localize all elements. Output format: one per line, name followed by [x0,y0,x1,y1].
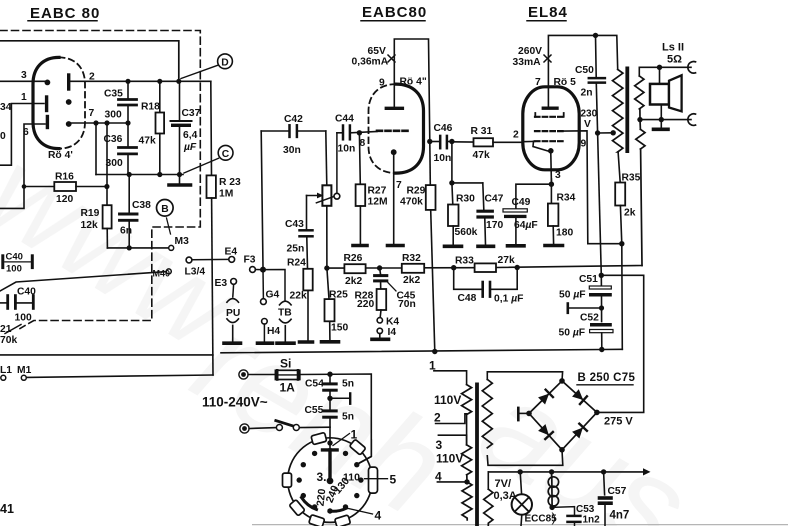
resistor R35 2k [615,173,640,244]
wire B+ solid top line [0,41,179,81]
node D [181,54,232,79]
svg-text:3.: 3. [317,470,327,484]
svg-text:70k: 70k [0,335,17,346]
svg-text:1A: 1A [280,381,296,395]
resistor R32 2k2 [402,253,424,286]
svg-text:5n: 5n [342,412,354,423]
wire screen pin9 down to R35 bottom [564,131,622,244]
svg-text:33mA: 33mA [513,57,542,68]
svg-text:Ls II: Ls II [662,42,684,54]
diode D4 [572,424,587,439]
svg-text:G4: G4 [266,290,280,301]
ground R27 [353,244,367,248]
svg-text:30n: 30n [283,145,301,156]
svg-text:C51: C51 [579,274,598,285]
svg-text:): ) [552,510,556,525]
svg-text:EL84: EL84 [528,4,568,21]
svg-text:170: 170 [486,220,503,231]
wire NFB rail y268 [327,266,642,269]
capacitor C48 0,1µF [454,268,524,305]
wire main bottom bus [221,349,622,353]
transformer T-out primary [613,69,623,151]
svg-text:2: 2 [89,72,95,83]
svg-text:34: 34 [0,102,12,113]
svg-text:TB: TB [278,308,292,319]
capacitor C43 25n [285,196,313,269]
svg-text:C49: C49 [512,197,531,208]
svg-text:C50: C50 [575,65,594,76]
capacitor C46 10n [430,123,455,164]
ground PU [224,341,241,345]
svg-text:R 31: R 31 [471,126,493,137]
capacitor C57 4n7 [600,472,630,526]
ground R30 [445,245,462,249]
svg-text:5n: 5n [342,379,354,390]
svg-text:K4: K4 [386,317,399,328]
svg-text:M40: M40 [153,269,171,279]
capacitor C36 300 [104,123,137,175]
svg-text:Rö 4": Rö 4" [400,77,427,88]
svg-text:µF: µF [183,142,197,153]
svg-text:R25: R25 [329,290,348,301]
ground H4 [258,341,273,345]
svg-text:50 µF: 50 µF [559,328,586,339]
svg-text:120: 120 [56,194,73,205]
capacitor C38 6n [120,175,152,248]
svg-text:C48: C48 [458,293,477,304]
svg-text:Si: Si [280,357,291,371]
svg-text:C35: C35 [104,89,123,100]
selector voltage rotary switch [283,428,397,526]
svg-text:70n: 70n [398,299,416,310]
node I4 terminal [377,328,382,333]
resistor R19 12k [81,120,112,247]
tube U-Rö4' triode EABC80 [21,57,95,161]
svg-text:7: 7 [89,108,95,119]
svg-text:27k: 27k [498,255,515,266]
voltage note 65V 0,36mA [352,46,396,68]
transformer core [625,67,629,154]
capacitor C50 2n [575,35,605,133]
selector rotor [323,448,338,451]
svg-text:C57: C57 [608,486,627,497]
transformer T-mains HV winding [482,379,492,447]
capacitor C53 1n2 [552,504,600,526]
svg-text:7: 7 [535,77,541,88]
ground R34 [545,244,563,248]
svg-text:47k: 47k [473,150,490,161]
capacitor C42 30n [261,114,326,156]
capacitor C35 300 [104,81,137,123]
resistor R16 120 [24,172,110,206]
svg-text:64µF: 64µF [514,220,538,231]
resistor R34 180 [548,170,576,244]
ground R25 [322,340,339,344]
tube U-Rö5 EL84 [513,77,587,182]
svg-text:M3: M3 [175,236,190,247]
ground I4 [372,337,389,341]
diode D2 [572,389,587,404]
terminal minus tick [517,408,520,420]
svg-text:5Ω: 5Ω [667,54,682,66]
svg-text:C44: C44 [335,114,354,125]
wire pin6 loop to left edge [0,124,45,208]
ground cathode Rö4'' [388,244,404,248]
node H4 terminal [262,319,268,325]
svg-text:22k: 22k [290,291,307,302]
svg-text:R32: R32 [402,253,421,264]
transformer T-mains winding 110V (a) [462,385,472,415]
svg-text:R27: R27 [368,186,387,197]
choke heater ECC85 [548,472,558,508]
svg-text:D: D [221,57,228,68]
svg-text:300: 300 [105,110,122,121]
svg-text:C38: C38 [132,200,151,211]
connector TB [280,301,292,341]
svg-text:I4: I4 [388,327,397,338]
svg-text:C40: C40 [6,252,23,263]
svg-text:H4: H4 [267,326,280,337]
transformer T-mains winding 110V (b) [462,445,472,475]
svg-text:R19: R19 [81,208,100,219]
svg-text:R26: R26 [344,253,363,264]
resistor R29 470k [400,139,436,352]
capacitor C40 100 (upper) [3,252,33,275]
node junctions on row [125,79,181,84]
wire left bottom rail [0,354,213,356]
svg-text:10n: 10n [338,144,356,155]
resistor R24 22k [287,258,313,341]
svg-text:300: 300 [106,158,123,169]
svg-text:100: 100 [6,264,22,275]
svg-text:7: 7 [396,180,402,191]
selector labels [333,434,350,446]
capacitor C40 100 (lower) [0,287,36,324]
fuse Si 1A [248,357,300,395]
svg-text:0: 0 [0,131,6,142]
wire anode B+ loop Rö4'' [394,39,430,142]
wire bottom row y174.5 [96,174,183,176]
capacitor C44 10n [335,114,377,155]
node M40 terminal + wire [0,269,171,292]
wire HV AC bottom [487,450,563,466]
ground R24 [300,340,313,344]
svg-text:65V: 65V [368,46,386,57]
capacitor C45 70n [375,268,416,310]
svg-text:47k: 47k [139,136,156,147]
ground speaker [660,120,662,128]
diode D1 [538,390,553,405]
resistor R31 47k [452,126,523,161]
svg-text:110-240V~: 110-240V~ [202,395,268,410]
svg-text:R16: R16 [55,172,74,183]
svg-text:3: 3 [21,70,27,81]
wire pot bottom down [326,206,328,268]
svg-text:0,36mA: 0,36mA [352,57,389,68]
selector tabs [283,432,378,526]
switch mains [249,421,330,431]
wire heater bus 6,3V [488,471,643,473]
svg-text:R18: R18 [141,102,160,113]
resistor R23 1M [207,81,242,375]
selector wiper arcs [329,508,347,511]
svg-text:9: 9 [379,78,385,89]
svg-text:5: 5 [390,473,397,487]
transformer T-mains core [475,383,479,526]
svg-text:6,4: 6,4 [183,130,198,141]
svg-text:R24: R24 [287,258,306,269]
wire between windings [466,415,468,445]
svg-text:L3/4: L3/4 [185,267,206,278]
svg-text:E3: E3 [215,278,228,289]
svg-text:6n: 6n [120,226,132,237]
title EABC80 (middle) [361,4,427,21]
wire B+ tap junction [595,130,600,135]
selector contacts [297,451,364,514]
transformer T-mains winding (c) [462,475,472,520]
capacitor C51 50µF [559,273,612,322]
svg-text:F3: F3 [244,255,256,266]
svg-text:4: 4 [375,509,382,523]
wire anode row y81 [0,80,47,82]
wire C42 left down to F3 [261,131,263,267]
svg-text:C46: C46 [434,123,453,134]
resistor R26 2k2 [344,253,366,287]
rectifier B 250 C75 bridge [526,372,635,453]
node E3 terminal [215,278,237,297]
svg-text:25n: 25n [287,244,305,255]
wire C42 right down to pot [326,131,327,185]
node F3 terminal [244,255,267,273]
svg-text:1M: 1M [219,189,233,200]
speaker Ls II 5Ω [637,42,695,126]
svg-text:R30: R30 [456,194,475,205]
svg-text:EABC80: EABC80 [362,4,427,21]
resistor R30 560k [448,142,478,245]
svg-text:275 V: 275 V [604,416,633,428]
watermark [0,124,713,526]
capacitor C47 170 [452,183,504,245]
svg-text:EABC 80: EABC 80 [30,5,100,22]
svg-text:100: 100 [15,313,32,324]
capacitor C54 5n [305,374,354,398]
node mains terminal upper [239,370,248,379]
svg-text:C37: C37 [182,108,201,119]
capacitor C49 64µF [503,184,551,244]
voltage note 260V 33mA [513,46,552,68]
svg-text:4n7: 4n7 [610,510,630,522]
node B [157,200,174,235]
node C [184,145,233,173]
capacitor C55 5n [305,398,355,450]
node L3/4 and E4 terminals [185,247,238,278]
svg-text:230: 230 [581,109,598,120]
wire R35 bottom down to bus [621,244,624,350]
node K4 terminal [377,318,382,323]
tube U-Rö4'' triode EABC80 [360,77,427,244]
transformer T-mains 7V winding [487,472,489,489]
svg-text:180: 180 [556,228,573,239]
capacitor C37 6,4µF electrolytic [171,81,201,174]
svg-text:B: B [161,204,168,215]
terminal tick C54/C55 [327,396,332,401]
node G4 terminal [262,270,264,299]
svg-text:C55: C55 [305,405,324,416]
resistor R33 27k [455,255,515,272]
svg-text:2n: 2n [581,88,593,99]
svg-text:3: 3 [436,438,443,452]
wire bridge + output 275V [597,275,644,412]
svg-text:R35: R35 [622,173,641,184]
title EABC 80 (left) [28,5,100,22]
wire R19/C38 to M3 [107,247,168,249]
svg-text:110V: 110V [434,393,461,407]
node mains terminal lower [240,424,249,433]
ground [169,175,191,186]
wire HV AC top [487,372,562,381]
resistor R27 12M [356,133,388,244]
svg-text:41: 41 [0,502,14,516]
svg-text:2: 2 [513,130,519,141]
svg-text:9: 9 [581,139,587,150]
wire F3 to TB [263,270,285,300]
svg-text:110V: 110V [436,452,463,466]
terminal tick between C51/C52 [568,307,602,309]
wire fuse to selector 110 contact [300,374,372,464]
svg-text:2k: 2k [624,208,636,219]
svg-text:R 23: R 23 [219,177,241,188]
svg-text:R33: R33 [455,256,474,267]
svg-text:1n2: 1n2 [583,515,601,526]
svg-text:1: 1 [21,92,27,103]
svg-text:PU: PU [226,308,240,319]
resistor R25 150 [325,268,349,339]
title EL84 [527,4,568,21]
svg-text:12M: 12M [368,197,388,208]
svg-text:2: 2 [434,411,441,425]
svg-text:10n: 10n [434,153,452,164]
svg-text:220: 220 [357,299,374,310]
resistor R28 220 [355,282,387,317]
transformer T-out secondary [635,76,645,266]
svg-text:C52: C52 [580,313,599,324]
svg-text:150: 150 [331,323,348,334]
svg-text:V: V [584,119,591,130]
wire EL84 anode to transformer [548,35,617,106]
svg-text:C47: C47 [485,194,504,205]
ground C49 [508,244,525,248]
svg-text:2k2: 2k2 [403,275,420,286]
svg-text:7V/: 7V/ [495,478,512,490]
ground TB [277,341,294,345]
svg-text:M1: M1 [17,365,32,376]
wire AVC drop [95,123,97,175]
node M3 terminal [169,245,174,250]
potentiometer volume [307,185,340,206]
svg-text:E4: E4 [225,247,238,258]
resistor R18 47k [139,81,165,174]
svg-text:2k2: 2k2 [345,276,362,287]
svg-text:220: 220 [315,488,329,507]
svg-text:C54: C54 [305,379,324,390]
svg-text:0,1 µF: 0,1 µF [494,294,523,305]
connector PU [227,299,239,342]
dashed shield box [0,31,200,329]
svg-text:R34: R34 [557,193,576,204]
svg-text:1: 1 [351,428,358,442]
wire pin7 / cap midpoint row [71,122,128,124]
svg-text:C40: C40 [17,287,36,298]
diode D3 [538,424,553,439]
svg-text:560k: 560k [455,227,478,238]
svg-text:3: 3 [555,170,561,181]
ground C47 [478,245,494,249]
wire grid1 row to R31 [523,140,535,142]
svg-text:L1: L1 [0,365,12,376]
svg-text:C43: C43 [285,219,304,230]
svg-text:B 250 C75: B 250 C75 [578,372,636,384]
svg-text:C42: C42 [284,114,303,125]
svg-text:Rö 4': Rö 4' [48,150,73,161]
transformer T-mains primary terminals [429,359,470,485]
scan bottom edge [252,524,788,526]
svg-text:C53: C53 [576,504,595,515]
wire wiper up to C44 [336,133,338,194]
svg-text:50 µF: 50 µF [559,290,586,301]
capacitor C52 50µF [559,313,614,350]
svg-text:C: C [222,149,230,160]
svg-text:R29: R29 [407,186,426,197]
lamp pilot [512,472,532,526]
wire pin1 to left edge, label 34 [0,104,44,166]
svg-text:12k: 12k [81,220,98,231]
svg-text:260V: 260V [518,46,542,57]
svg-text:Rö 5: Rö 5 [554,77,577,88]
svg-text:470k: 470k [400,197,423,208]
